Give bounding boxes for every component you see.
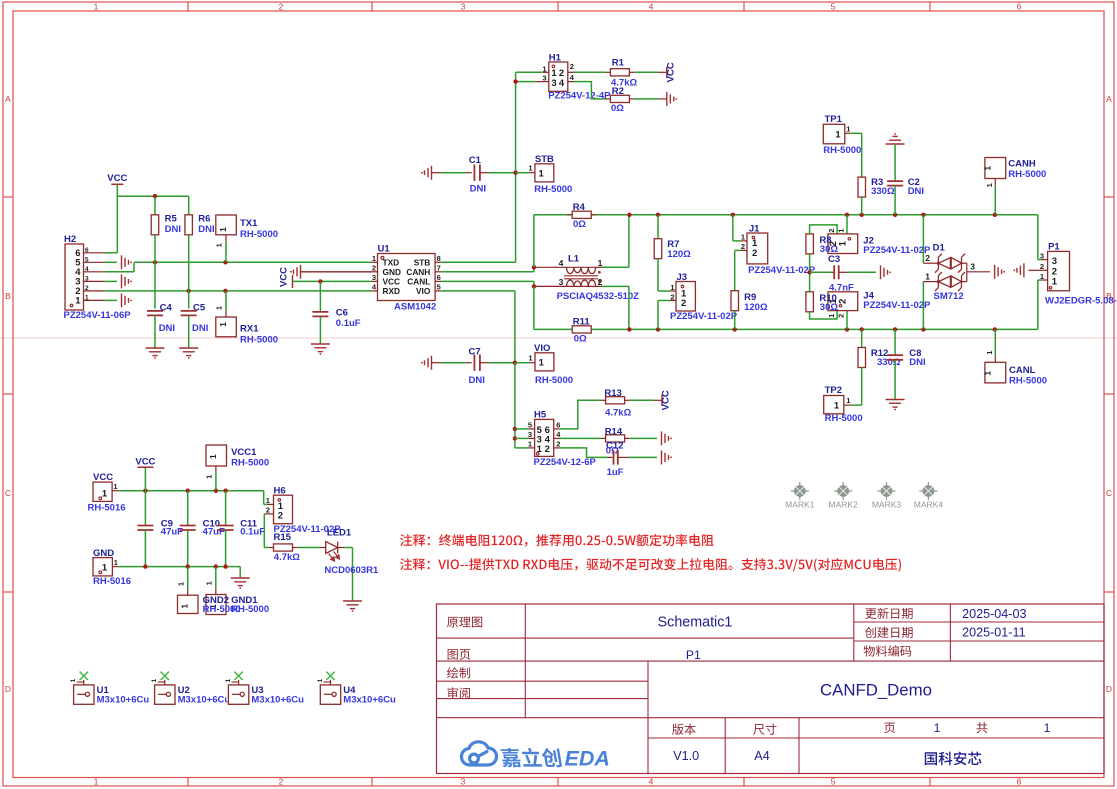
svg-text:R6: R6 [198, 214, 210, 225]
svg-text:330Ω: 330Ω [877, 357, 901, 368]
svg-text:D: D [5, 684, 11, 694]
svg-text:VCC: VCC [135, 457, 155, 468]
svg-text:VCC: VCC [279, 267, 290, 287]
svg-text:3: 3 [461, 2, 466, 12]
svg-text:NCD0603R1: NCD0603R1 [324, 565, 379, 576]
svg-text:1: 1 [837, 240, 848, 246]
svg-text:1: 1 [113, 482, 117, 491]
svg-text:3: 3 [542, 74, 546, 83]
svg-text:A: A [1106, 94, 1112, 104]
svg-text:6: 6 [85, 247, 89, 254]
svg-text:4: 4 [85, 266, 89, 273]
svg-text:D1: D1 [933, 242, 946, 253]
svg-text:C: C [1106, 488, 1112, 498]
svg-text:RH-5000: RH-5000 [535, 375, 573, 386]
svg-text:3: 3 [970, 262, 975, 272]
svg-text:2: 2 [570, 62, 574, 71]
svg-text:1: 1 [317, 678, 324, 682]
svg-text:1: 1 [70, 678, 77, 682]
svg-text:A4: A4 [754, 749, 769, 763]
svg-text:RH-5000: RH-5000 [240, 229, 278, 240]
svg-text:4: 4 [649, 2, 654, 12]
svg-text:3: 3 [551, 78, 556, 89]
svg-text:R14: R14 [605, 427, 623, 438]
svg-text:5: 5 [831, 777, 836, 787]
svg-text:STB: STB [535, 154, 554, 165]
svg-text:C5: C5 [193, 302, 206, 313]
svg-text:VCC: VCC [107, 173, 127, 184]
svg-text:WJ2EDGR-5.08-3P: WJ2EDGR-5.08-3P [1045, 295, 1117, 306]
svg-text:MARK3: MARK3 [872, 499, 902, 509]
svg-text:1: 1 [102, 489, 108, 500]
svg-text:TX1: TX1 [240, 218, 258, 229]
svg-text:2: 2 [670, 292, 674, 301]
svg-text:47uF: 47uF [203, 526, 225, 537]
svg-text:0Ω: 0Ω [574, 333, 587, 344]
svg-text:M3x10+6Cu: M3x10+6Cu [97, 695, 150, 706]
svg-text:J1: J1 [749, 224, 760, 235]
svg-text:1: 1 [94, 777, 99, 787]
svg-text:4.7kΩ: 4.7kΩ [274, 552, 300, 563]
svg-text:0.1uF: 0.1uF [336, 318, 361, 329]
svg-text:P1: P1 [1048, 242, 1060, 253]
svg-text:GND: GND [93, 548, 114, 559]
svg-text:RXD: RXD [383, 286, 401, 296]
svg-text:VCC: VCC [666, 62, 677, 82]
svg-text:RH-5000: RH-5000 [823, 145, 861, 156]
svg-text:1: 1 [85, 295, 89, 302]
svg-text:M3x10+6Cu: M3x10+6Cu [178, 695, 231, 706]
svg-text:8: 8 [437, 254, 441, 263]
svg-text:1: 1 [528, 164, 532, 173]
svg-text:1: 1 [934, 721, 941, 735]
svg-text:120Ω: 120Ω [744, 302, 768, 313]
svg-text:C1: C1 [469, 155, 482, 166]
svg-text:TP1: TP1 [825, 114, 843, 125]
svg-text:MARK4: MARK4 [914, 499, 944, 509]
svg-text:EDA: EDA [565, 747, 610, 771]
svg-text:RH-5000: RH-5000 [534, 184, 572, 195]
svg-text:VIO: VIO [416, 286, 431, 296]
svg-text:1: 1 [225, 678, 232, 682]
svg-text:4: 4 [649, 777, 654, 787]
svg-text:2: 2 [827, 229, 836, 233]
svg-text:CANL: CANL [1009, 365, 1036, 376]
svg-text:V1.0: V1.0 [673, 749, 699, 763]
svg-text:LED1: LED1 [327, 528, 352, 539]
svg-text:0.1uF: 0.1uF [240, 526, 265, 537]
svg-text:C4: C4 [160, 302, 173, 313]
svg-text:C3: C3 [828, 254, 840, 265]
svg-text:30Ω: 30Ω [820, 302, 839, 313]
svg-text:1: 1 [537, 444, 543, 455]
svg-text:CANL: CANL [407, 277, 430, 287]
svg-text:B: B [5, 291, 11, 301]
svg-text:1uF: 1uF [607, 467, 624, 478]
svg-text:2: 2 [266, 506, 270, 515]
svg-text:PZ254V-11-02P: PZ254V-11-02P [863, 245, 931, 256]
svg-text:1: 1 [1044, 721, 1051, 735]
svg-text:DNI: DNI [470, 184, 486, 195]
svg-text:MARK1: MARK1 [785, 499, 815, 509]
svg-text:7: 7 [437, 264, 441, 273]
svg-text:1: 1 [985, 183, 994, 187]
svg-text:PZ254V-12-4P: PZ254V-12-4P [548, 91, 611, 102]
svg-text:ASM1042: ASM1042 [394, 301, 436, 312]
svg-text:3: 3 [1040, 251, 1044, 260]
svg-text:TP2: TP2 [825, 385, 842, 396]
svg-text:RH-5016: RH-5016 [88, 502, 126, 513]
svg-text:6: 6 [1017, 2, 1022, 12]
svg-text:2: 2 [681, 298, 686, 309]
svg-text:PZ254V-11-02P: PZ254V-11-02P [670, 311, 738, 322]
svg-text:DNI: DNI [198, 224, 214, 235]
svg-text:CANFD_Demo: CANFD_Demo [820, 680, 932, 699]
svg-text:4.7kΩ: 4.7kΩ [605, 407, 631, 418]
svg-text:U1: U1 [378, 243, 391, 254]
svg-text:M3x10+6Cu: M3x10+6Cu [251, 695, 304, 706]
svg-text:PSCIAQ4532-510Z: PSCIAQ4532-510Z [557, 291, 640, 302]
svg-text:1: 1 [1040, 272, 1044, 281]
svg-text:3: 3 [528, 430, 532, 439]
svg-text:1: 1 [372, 254, 376, 263]
svg-text:1: 1 [846, 396, 850, 405]
svg-text:D: D [1106, 684, 1112, 694]
svg-text:DNI: DNI [159, 323, 175, 334]
svg-text:1: 1 [925, 271, 930, 281]
svg-text:2025-01-11: 2025-01-11 [962, 626, 1026, 640]
svg-text:1: 1 [539, 358, 545, 369]
svg-text:R5: R5 [165, 214, 178, 225]
svg-text:1: 1 [983, 371, 993, 376]
svg-text:6: 6 [556, 420, 560, 429]
svg-text:1: 1 [208, 454, 218, 459]
svg-text:2: 2 [752, 248, 757, 259]
svg-text:5: 5 [437, 283, 441, 292]
svg-text:C7: C7 [469, 346, 481, 357]
svg-text:3: 3 [559, 277, 564, 287]
svg-text:5: 5 [528, 420, 532, 429]
svg-text:1: 1 [266, 496, 270, 505]
svg-text:2: 2 [545, 444, 550, 455]
svg-text:M3x10+6Cu: M3x10+6Cu [343, 695, 396, 706]
svg-text:2: 2 [279, 2, 284, 12]
svg-text:1: 1 [598, 258, 603, 268]
svg-text:2: 2 [278, 511, 283, 522]
svg-text:RH-5016: RH-5016 [93, 576, 131, 587]
svg-text:RX1: RX1 [240, 324, 259, 335]
svg-text:R4: R4 [573, 202, 586, 213]
svg-text:VIO: VIO [534, 343, 550, 354]
svg-text:RH-5000: RH-5000 [240, 335, 278, 346]
svg-text:1: 1 [215, 306, 224, 310]
svg-text:2: 2 [85, 285, 89, 292]
svg-text:DNI: DNI [469, 375, 485, 386]
svg-text:1: 1 [741, 233, 745, 242]
svg-text:J3: J3 [677, 272, 688, 283]
svg-text:1: 1 [75, 296, 81, 307]
svg-text:TXD: TXD [383, 258, 400, 268]
svg-text:0Ω: 0Ω [611, 103, 624, 114]
svg-text:4: 4 [559, 78, 565, 89]
svg-text:1: 1 [528, 354, 532, 363]
svg-text:R15: R15 [274, 532, 292, 543]
svg-text:5: 5 [831, 2, 836, 12]
svg-text:1: 1 [205, 475, 214, 479]
svg-text:1: 1 [102, 563, 108, 574]
svg-text:CANH: CANH [406, 267, 430, 277]
svg-text:2: 2 [837, 314, 846, 318]
svg-text:6: 6 [437, 273, 441, 282]
svg-text:3: 3 [461, 777, 466, 787]
svg-text:PZ254V-11-02P: PZ254V-11-02P [748, 265, 816, 276]
svg-text:2: 2 [556, 439, 560, 448]
svg-text:6: 6 [1017, 777, 1022, 787]
svg-text:1: 1 [827, 314, 836, 318]
svg-text:PZ254V-12-6P: PZ254V-12-6P [534, 457, 597, 468]
svg-text:1: 1 [180, 604, 190, 609]
svg-text:120Ω: 120Ω [667, 249, 691, 260]
svg-text:2: 2 [837, 299, 848, 304]
svg-text:47uF: 47uF [161, 526, 183, 537]
svg-text:1: 1 [218, 227, 228, 232]
svg-text:1: 1 [539, 169, 545, 180]
svg-text:GND: GND [383, 267, 401, 277]
svg-text:4: 4 [559, 258, 564, 268]
svg-text:MARK2: MARK2 [829, 499, 859, 509]
svg-text:R2: R2 [612, 86, 624, 97]
svg-text:3: 3 [372, 273, 376, 282]
svg-text:2: 2 [741, 242, 745, 251]
svg-text:PZ254V-11-02P: PZ254V-11-02P [863, 300, 931, 311]
svg-text:VCC1: VCC1 [231, 447, 257, 458]
svg-text:1: 1 [205, 581, 214, 585]
svg-text:RH-5000: RH-5000 [231, 604, 269, 615]
svg-text:1: 1 [528, 439, 532, 448]
svg-text:H2: H2 [64, 234, 76, 245]
svg-text:2: 2 [1040, 262, 1044, 271]
svg-text:H1: H1 [549, 52, 562, 63]
svg-text:1: 1 [834, 400, 840, 411]
svg-text:P1: P1 [686, 648, 701, 662]
svg-text:3: 3 [85, 276, 89, 283]
svg-text:STB: STB [414, 258, 431, 268]
svg-text:Schematic1: Schematic1 [658, 615, 733, 631]
svg-text:1: 1 [114, 558, 118, 567]
svg-text:RH-5000: RH-5000 [231, 458, 269, 469]
svg-text:CANH: CANH [1008, 158, 1036, 169]
svg-text:PZ254V-11-06P: PZ254V-11-06P [64, 310, 132, 321]
svg-text:1: 1 [542, 64, 546, 73]
svg-text:R1: R1 [612, 57, 625, 68]
svg-text:DNI: DNI [908, 186, 924, 197]
svg-text:1: 1 [983, 166, 993, 171]
svg-text:H6: H6 [274, 485, 286, 496]
svg-text:1: 1 [837, 229, 846, 233]
svg-text:1: 1 [215, 243, 224, 247]
svg-text:1: 1 [835, 129, 841, 140]
svg-text:R11: R11 [573, 317, 591, 328]
svg-text:RH-5000: RH-5000 [1008, 169, 1046, 180]
svg-text:1: 1 [846, 124, 850, 133]
svg-text:0Ω: 0Ω [573, 219, 586, 230]
svg-text:L1: L1 [568, 253, 580, 264]
svg-text:2: 2 [598, 277, 603, 287]
svg-text:SM712: SM712 [934, 291, 964, 302]
svg-text:5: 5 [85, 257, 89, 264]
svg-text:1: 1 [1052, 277, 1058, 288]
svg-text:R13: R13 [604, 388, 621, 399]
svg-text:2: 2 [279, 777, 284, 787]
svg-text:2025-04-03: 2025-04-03 [962, 607, 1026, 621]
svg-text:1: 1 [94, 2, 99, 12]
svg-text:H5: H5 [534, 410, 547, 421]
svg-text:1: 1 [985, 351, 994, 355]
svg-text:DNI: DNI [192, 323, 208, 334]
svg-text:RH-5000: RH-5000 [1009, 375, 1047, 386]
svg-text:RH-5000: RH-5000 [825, 413, 863, 424]
svg-text:2: 2 [372, 264, 376, 273]
svg-text:1: 1 [670, 283, 674, 292]
svg-text:1: 1 [151, 678, 158, 682]
svg-text:A: A [5, 94, 11, 104]
svg-text:DNI: DNI [909, 357, 925, 368]
svg-text:2: 2 [925, 253, 930, 263]
svg-text:C6: C6 [336, 308, 348, 319]
svg-text:VCC: VCC [383, 277, 401, 287]
svg-text:VCC: VCC [93, 472, 113, 483]
svg-text:1: 1 [218, 322, 228, 327]
svg-text:DNI: DNI [165, 224, 181, 235]
svg-text:VCC: VCC [661, 390, 672, 410]
svg-text:1: 1 [177, 582, 186, 586]
svg-text:330Ω: 330Ω [871, 186, 895, 197]
svg-text:C: C [5, 488, 11, 498]
